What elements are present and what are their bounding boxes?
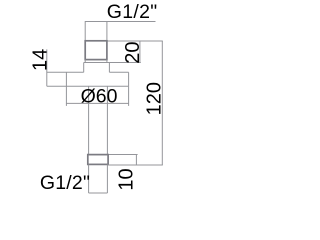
svg-text:20: 20 bbox=[122, 41, 144, 63]
diameter 60 right extension line bbox=[128, 86, 130, 106]
pipe left edge bbox=[88, 86, 90, 154]
spigot bottom end bbox=[89, 192, 108, 194]
14 dimension line bbox=[46, 49, 48, 86]
flange top right bbox=[109, 71, 128, 73]
top thread left edge bbox=[84, 22, 86, 42]
upper body left edge continuation bbox=[84, 60, 86, 63]
svg-text:Ø60: Ø60 bbox=[81, 86, 118, 108]
diameter 60 dimension line bbox=[66, 102, 128, 104]
pipe right edge bbox=[106, 86, 108, 154]
flange right edge bbox=[128, 72, 130, 86]
flange left edge bbox=[65, 72, 67, 86]
svg-text:10: 10 bbox=[116, 168, 138, 190]
spigot right edge bbox=[106, 165, 108, 193]
bottom extension line (bottom of 10 and 120 dimensions) bbox=[107, 164, 162, 166]
upper body section (20 mm), heavy outline bbox=[85, 41, 107, 60]
svg-text:G1/2": G1/2" bbox=[40, 172, 90, 194]
flange top left + extension line to 14 dimension bbox=[47, 71, 84, 73]
10 dimension line bbox=[135, 155, 137, 166]
flange bottom + extension line to 14 dimension bbox=[47, 85, 129, 87]
diameter 60 left extension line bbox=[65, 86, 67, 106]
svg-text:120: 120 bbox=[144, 82, 166, 115]
spigot left edge bbox=[88, 165, 90, 193]
top thread right edge bbox=[106, 22, 108, 42]
svg-text:14: 14 bbox=[30, 49, 52, 71]
collar left edge bbox=[83, 63, 85, 73]
shoulder extension line (top of 20 and 120 dimensions) bbox=[107, 40, 163, 42]
top edge of arm + leader line under G1/2" label bbox=[85, 21, 156, 23]
20 dimension line bbox=[139, 41, 141, 63]
collar top line + extension to 20 dimension bbox=[84, 62, 141, 64]
svg-text:G1/2": G1/2" bbox=[107, 1, 158, 23]
120 dimension line bbox=[161, 41, 163, 165]
upper body right edge continuation bbox=[106, 60, 108, 63]
collar right edge bbox=[108, 63, 110, 73]
bottom thread top line + extension to 10 dimension bbox=[89, 154, 138, 156]
bottom thread (10 mm), heavy outline bbox=[88, 155, 108, 165]
